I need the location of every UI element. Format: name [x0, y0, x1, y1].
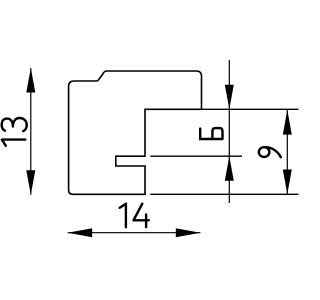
- arrowhead 14 left: [68, 228, 93, 237]
- dimension line 14 (horizontal, bottom): [68, 232, 201, 234]
- dimension line 9 (vertical, x=287.3): [286, 110, 288, 194]
- arrowhead 9 down: [283, 170, 292, 195]
- extension line C (bottom, y=194.3): [150, 193, 298, 195]
- arrowhead 9 up: [283, 110, 292, 135]
- extension line B (middle, y=156.2): [150, 155, 242, 157]
- label 13: [2, 118, 27, 146]
- dimension line 5 (vertical, x=229.3): [228, 60, 230, 203]
- label 14: [120, 204, 149, 228]
- arrowhead 5 down (above line A): [225, 85, 234, 110]
- moulding profile outline: [69, 71, 202, 194]
- arrowhead 13 up: [26, 68, 35, 93]
- arrowhead 5 up (below line B): [225, 156, 234, 181]
- arrowhead 13 down: [26, 170, 35, 195]
- dimension line 13 (vertical, left): [30, 68, 32, 195]
- label 5: [200, 128, 222, 139]
- arrowhead 14 right: [176, 228, 201, 237]
- extension line A (rabbet top, y=109.3): [202, 108, 299, 110]
- label 9: [259, 147, 281, 157]
